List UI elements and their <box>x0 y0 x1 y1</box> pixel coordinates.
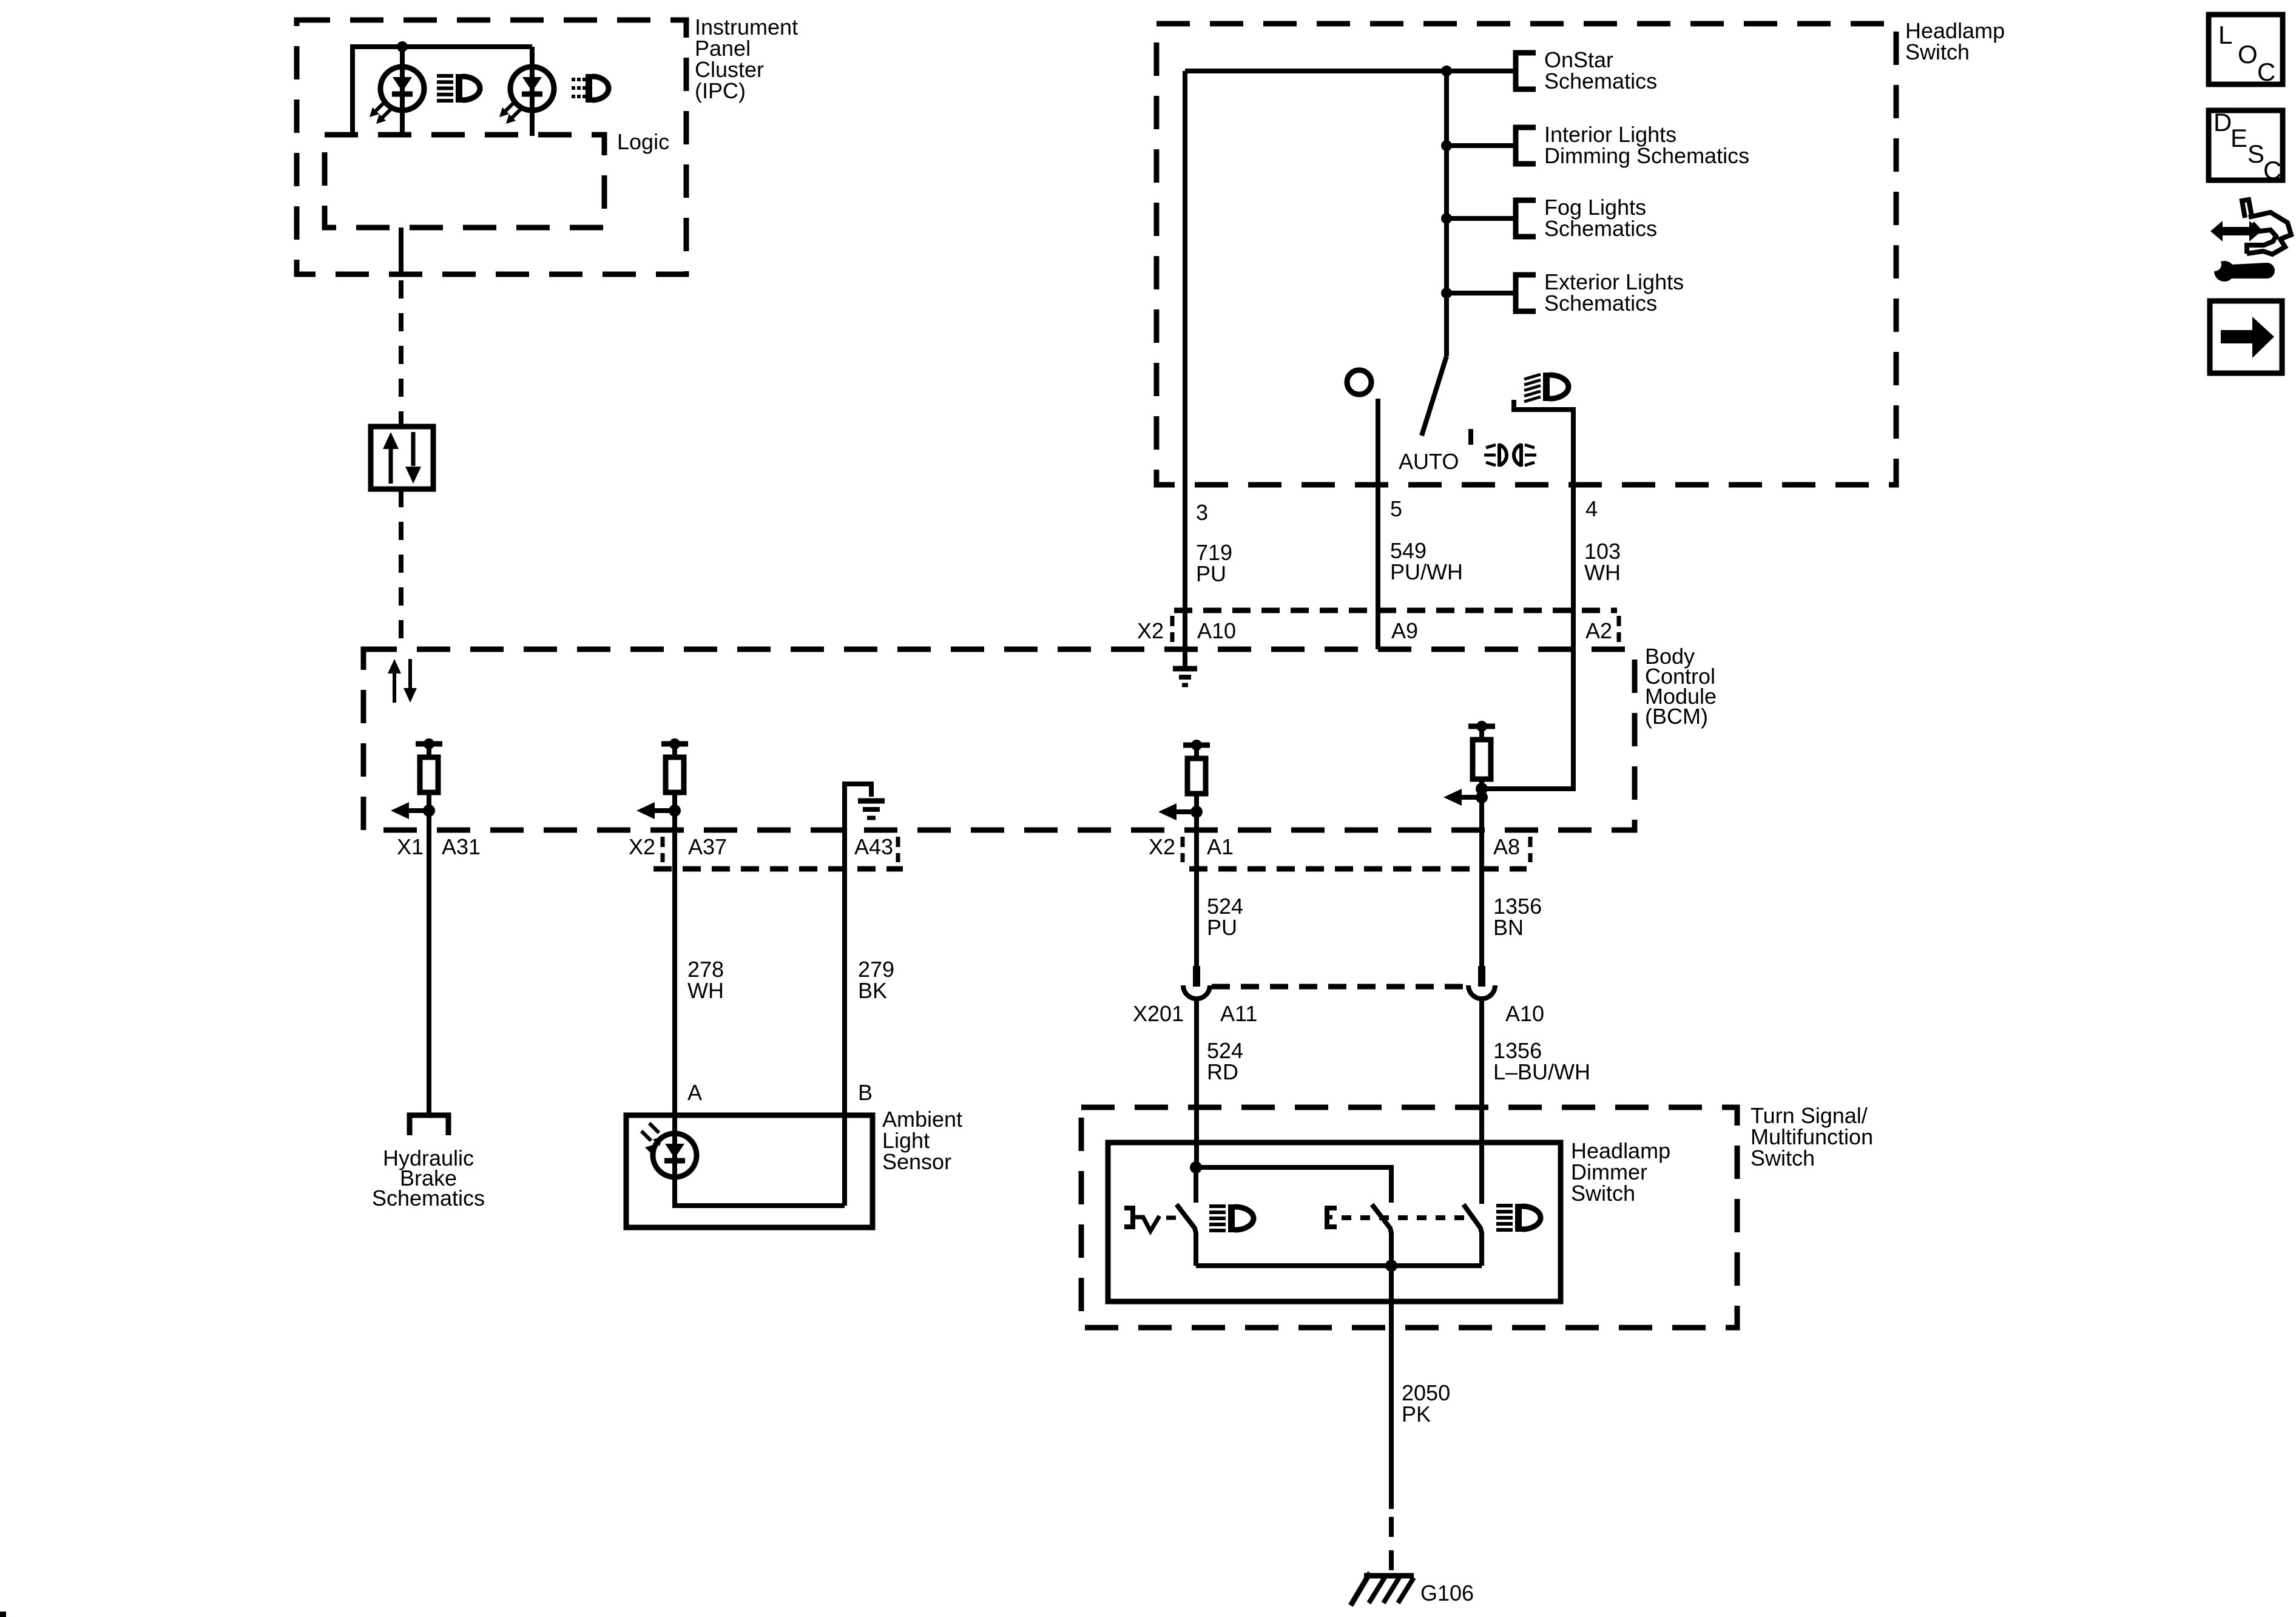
BCM driver: X2-A37 output <box>661 741 688 747</box>
svg-text:C: C <box>2257 58 2275 86</box>
svg-text:A37: A37 <box>688 834 727 859</box>
icon: park lamps position <box>1486 445 1496 448</box>
wire: branch to Fog Lights <box>1447 216 1516 221</box>
off-page connector: Interior Lights Dimming Schematics <box>1516 127 1536 164</box>
svg-text:(IPC): (IPC) <box>695 78 746 103</box>
icon: high-beam indicator symbol <box>437 74 453 78</box>
wire: serial data (dashed) <box>399 280 403 427</box>
svg-text:WH: WH <box>687 978 724 1003</box>
svg-text:X201: X201 <box>1133 1001 1184 1026</box>
svg-text:Switch: Switch <box>1905 39 1970 64</box>
icon box: DESC <box>2209 110 2283 180</box>
junction: 524 RD node in dimmer <box>1190 1161 1202 1173</box>
wire: branch to Exterior Lights <box>1447 291 1516 295</box>
mechanical link (dashed) <box>1342 1215 1471 1220</box>
connector X2 (A37/A43): cavity line <box>653 866 903 872</box>
BCM driver: X1-A31 output <box>416 741 442 747</box>
icon: adjust with hand and wrench <box>2220 227 2252 235</box>
svg-text:A1: A1 <box>1207 834 1234 859</box>
svg-text:D: D <box>2213 108 2232 137</box>
contact: AUTO position tick <box>1468 429 1473 445</box>
svg-text:A9: A9 <box>1391 618 1418 643</box>
wire: high-beam telltale branch <box>400 47 405 136</box>
junction: bus node 1 <box>1441 66 1452 76</box>
box: Headlamp Switch (dashed) <box>1156 24 1896 485</box>
ground: BCM A43 internal ground <box>845 784 871 869</box>
wire 2050 PK (dashed to ground) <box>1389 1517 1394 1573</box>
contact: dimmer common (E bracket) <box>1327 1208 1337 1227</box>
svg-text:X2: X2 <box>1149 834 1175 859</box>
svg-text:Schematics: Schematics <box>372 1186 485 1210</box>
svg-text:Dimming Schematics: Dimming Schematics <box>1544 143 1749 168</box>
svg-text:Logic: Logic <box>617 129 669 154</box>
svg-text:BN: BN <box>1493 915 1524 940</box>
switch blade: high beam <box>1464 1204 1482 1266</box>
junction: bus node 4 <box>1441 288 1452 299</box>
icon: headlamps-on position <box>1524 374 1541 379</box>
connector A43: right tick <box>896 837 900 862</box>
icon: low-beam output lamp <box>1209 1204 1226 1208</box>
wire: switch feed bus <box>1185 69 1516 73</box>
svg-text:(BCM): (BCM) <box>1645 704 1708 729</box>
svg-text:X1: X1 <box>397 834 424 859</box>
svg-text:B: B <box>858 1080 873 1105</box>
wire: dimmer ground bus <box>1196 1263 1482 1268</box>
icon box: LOC <box>2209 15 2283 84</box>
svg-text:Schematics: Schematics <box>1544 216 1657 241</box>
svg-text:PU: PU <box>1207 915 1237 940</box>
svg-text:O: O <box>2238 40 2258 69</box>
icon: high-beam output lamp <box>1496 1204 1513 1207</box>
svg-text:A8: A8 <box>1493 834 1520 859</box>
in-line connector X201 terminal A10 <box>1478 966 1485 987</box>
junction: bus node 3 <box>1441 213 1452 224</box>
wire: flash contact stub <box>1194 1167 1198 1203</box>
ground: BCM A10 internal ground <box>1173 666 1197 672</box>
svg-text:BK: BK <box>858 978 887 1003</box>
switch blade: center <box>1372 1204 1391 1266</box>
svg-text:3: 3 <box>1196 500 1208 525</box>
wire: dimmer feed jumper <box>1196 1167 1391 1203</box>
wire 4: 103 WH from headlamps position to BCM A2/A8 <box>1482 400 1573 789</box>
box: Body Control Module (dashed) <box>363 649 1635 830</box>
svg-text:A10: A10 <box>1505 1001 1544 1026</box>
junction: ground bus node <box>1385 1260 1397 1272</box>
svg-text:X2: X2 <box>629 834 655 859</box>
svg-text:A43: A43 <box>854 834 893 859</box>
svg-text:RD: RD <box>1207 1059 1238 1084</box>
svg-text:E: E <box>2230 124 2247 152</box>
box: Turn Signal/Multifunction Switch (dashed) <box>1081 1107 1737 1328</box>
connector X2 row (A10/A9/A2): cavity line <box>1174 608 1617 613</box>
svg-text:WH: WH <box>1584 560 1621 585</box>
wire: sensor internal path <box>675 1177 845 1206</box>
off-page connector: Exterior Lights Schematics <box>1516 275 1536 311</box>
svg-text:A31: A31 <box>442 834 481 859</box>
contact: flash-to-pass fixed contact <box>1124 1208 1133 1227</box>
svg-text:PU/WH: PU/WH <box>1390 559 1463 584</box>
connector X201: cavity line <box>1212 984 1471 990</box>
svg-text:X2: X2 <box>1137 618 1164 643</box>
connector X2 A37: tick <box>661 837 665 862</box>
contact: OFF position ring <box>1347 370 1371 394</box>
stray mark: bottom-left dot <box>0 1612 6 1617</box>
BCM driver: X2-A1 output <box>1183 743 1210 748</box>
box: Instrument Panel Cluster (IPC), dashed <box>297 20 686 274</box>
wire 5: 549 PU/WH (AUTO) to BCM A9 <box>1376 399 1380 649</box>
ground G106: chassis ground <box>1364 1573 1414 1579</box>
svg-text:A11: A11 <box>1220 1001 1257 1026</box>
wire: switch bus trunk <box>1444 71 1449 356</box>
wire: 1356 L-BU/WH <box>1479 1000 1484 1204</box>
wire: logic serial-data output (solid stub) <box>399 228 403 275</box>
svg-text:Switch: Switch <box>1751 1146 1815 1170</box>
connector X2 (A1): cavity line <box>1189 866 1527 872</box>
wire: IPC supply bus <box>353 47 532 136</box>
connector X2: right tick <box>1617 616 1621 642</box>
BCM driver: X2-A8 output <box>1468 724 1495 729</box>
wire: serial data to BCM (dashed) <box>399 489 403 649</box>
svg-text:A: A <box>687 1080 702 1105</box>
wire: 279 BK / sensor B leg <box>842 869 847 1206</box>
svg-text:PK: PK <box>1402 1402 1431 1426</box>
junction: bus node 2 <box>1441 140 1452 151</box>
box: Logic (dashed) <box>325 135 604 228</box>
svg-text:A2: A2 <box>1585 618 1612 643</box>
symbol: BCM serial data arrows <box>393 670 396 703</box>
connector X2 A1: tick <box>1181 837 1185 862</box>
junction: IPC bus node <box>397 41 408 52</box>
box: Headlamp Dimmer Switch (solid) <box>1108 1143 1561 1301</box>
wire: branch to Interior Lights Dimming <box>1447 143 1516 148</box>
off-page connector: Fog Lights Schematics <box>1516 200 1536 237</box>
svg-text:Schematics: Schematics <box>1544 69 1657 93</box>
photodiode: ambient light sensor element <box>653 1133 697 1177</box>
wire: 524 RD <box>1194 1000 1199 1167</box>
svg-text:5: 5 <box>1390 496 1402 521</box>
svg-text:S: S <box>2247 140 2264 168</box>
switch lever (wiper) <box>1422 356 1447 436</box>
connector A8: right tick <box>1528 837 1533 862</box>
wire 2050 PK (solid) <box>1389 1266 1394 1509</box>
svg-text:Switch: Switch <box>1571 1181 1635 1206</box>
LED D2: low-beam indicator <box>510 67 554 110</box>
svg-text:L: L <box>2218 21 2232 49</box>
in-line connector X201 terminal A11 <box>1193 966 1200 987</box>
svg-text:4: 4 <box>1585 496 1598 521</box>
symbol: serial data link box with up/down arrows <box>371 427 433 489</box>
svg-text:G106: G106 <box>1420 1581 1474 1605</box>
svg-text:A10: A10 <box>1197 618 1236 643</box>
bracket: to Hydraulic Brake Schematics <box>410 1115 448 1135</box>
LED D1: high-beam indicator <box>380 67 424 110</box>
connector X2: left tick <box>1170 616 1175 642</box>
wire 3: 719 PU to BCM A10 <box>1183 71 1187 669</box>
svg-text:L–BU/WH: L–BU/WH <box>1493 1059 1590 1084</box>
icon box: right arrow <box>2210 301 2282 373</box>
switch blade: flash/low beam <box>1177 1204 1196 1266</box>
wire: low-beam telltale branch <box>530 47 535 136</box>
svg-text:C: C <box>2263 156 2281 184</box>
off-page connector: OnStar Schematics <box>1516 53 1536 89</box>
box: Ambient Light Sensor (solid) <box>626 1115 873 1227</box>
icon: low-beam indicator symbol <box>572 78 575 81</box>
svg-text:PU: PU <box>1196 561 1226 586</box>
svg-text:Sensor: Sensor <box>882 1149 951 1174</box>
svg-text:AUTO: AUTO <box>1399 449 1459 474</box>
svg-text:Schematics: Schematics <box>1544 291 1657 316</box>
